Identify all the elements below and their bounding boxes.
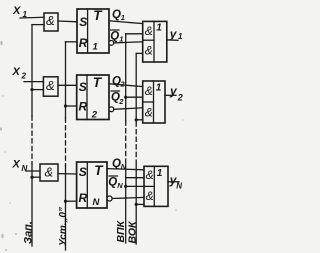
wire bus-vpk lower stub rowN: [126, 185, 144, 187]
svg-text:N: N: [117, 181, 123, 190]
svg-text:N: N: [93, 197, 101, 208]
svg-text:&: &: [46, 13, 55, 28]
and-or block row2: [143, 81, 165, 123]
label T2 pins: [79, 75, 103, 121]
wire and2 output to S2: [58, 84, 77, 86]
bus VPK vertical: [125, 34, 127, 243]
svg-text:&: &: [146, 168, 154, 182]
wire QN: [107, 169, 144, 170]
wire Q2-bar: [114, 108, 143, 110]
svg-text:&: &: [145, 24, 153, 38]
wire and1 output to S1: [58, 20, 77, 23]
inverter bubble QN: [107, 196, 112, 201]
svg-text:S: S: [79, 15, 87, 29]
label Q2: [112, 76, 126, 89]
junction bus-ust rowN: [64, 200, 67, 203]
svg-text:1: 1: [119, 34, 123, 43]
labels inside and-or block row2: [145, 83, 162, 120]
label y1: [169, 27, 183, 41]
svg-text:R: R: [79, 36, 88, 50]
wire Q1-bar: [114, 42, 143, 43]
svg-text:&: &: [146, 189, 154, 203]
svg-text:Q: Q: [110, 31, 119, 43]
label QN: [112, 158, 127, 171]
label X1: [12, 5, 28, 19]
labels inside and-or block rowN: [146, 168, 163, 203]
svg-text:T: T: [93, 8, 103, 23]
svg-text:&: &: [46, 78, 55, 93]
and-gate rowN: [40, 164, 58, 181]
label Zap: [23, 221, 35, 244]
label T1 pins: [79, 8, 104, 53]
inverter bubble Q1: [109, 41, 114, 46]
wire bus-vok stub row2: [136, 119, 143, 121]
wire Q2: [109, 84, 143, 87]
svg-text:&: &: [145, 43, 153, 57]
label Q2-bar: [111, 91, 124, 106]
wire X2 input: [24, 81, 43, 83]
inverter bubble Q2: [109, 107, 114, 112]
junction bus-vpk rowN: [124, 185, 127, 188]
label Ust0: [58, 207, 69, 246]
label QN-bar: [108, 176, 123, 190]
svg-text:2: 2: [21, 72, 27, 81]
wire yN output: [168, 181, 179, 183]
svg-text:Q: Q: [112, 9, 121, 21]
junction bus-vok row2: [135, 118, 138, 121]
wire bus-zap stub row1: [32, 24, 44, 26]
svg-text:&: &: [145, 106, 153, 120]
wire andN output to SN: [58, 173, 77, 175]
svg-text:T: T: [93, 75, 103, 90]
trigger TN: [77, 162, 107, 208]
wire Q1: [109, 21, 143, 24]
and-gate row1: [44, 13, 58, 31]
label Q1-bar: [110, 30, 123, 43]
wire y2 output: [165, 94, 176, 96]
labels inside and-or block row1: [145, 23, 163, 58]
svg-text:R: R: [79, 191, 88, 205]
svg-text:y: y: [169, 27, 178, 41]
svg-text:&: &: [145, 84, 153, 98]
wire bus-zap stub row2: [32, 89, 43, 91]
label X2: [12, 66, 27, 81]
bus VOK vertical: [135, 53, 137, 244]
scan smudges: [0, 41, 184, 251]
label VOK: [126, 220, 138, 243]
junction bus-zap row2: [30, 88, 33, 91]
junction bus-vok rowN: [135, 203, 138, 206]
svg-text:Q: Q: [108, 177, 117, 189]
junction bus-ust row2: [64, 104, 67, 107]
svg-text:S: S: [79, 80, 87, 94]
wire bus-vok stub row1: [136, 52, 143, 54]
svg-text:N: N: [176, 181, 182, 190]
svg-text:X: X: [12, 159, 21, 171]
wire RN stub: [66, 200, 77, 202]
svg-text:1: 1: [157, 168, 163, 179]
label y2: [169, 84, 183, 102]
and-gate row2: [43, 77, 58, 96]
svg-text:T: T: [94, 163, 104, 178]
svg-text:Уст.„0”: Уст.„0”: [58, 207, 69, 246]
svg-text:2: 2: [177, 92, 183, 102]
svg-text:R: R: [79, 100, 88, 114]
label yN: [169, 173, 183, 190]
wire bus-vok stub rowN: [136, 203, 144, 205]
svg-text:Зап.: Зап.: [23, 221, 35, 244]
svg-text:X: X: [12, 5, 21, 17]
svg-text:S: S: [79, 165, 87, 179]
svg-text:ВПК: ВПК: [115, 219, 127, 242]
wire bus-zap stub rowN: [32, 176, 40, 178]
wire XN input: [26, 170, 40, 172]
svg-text:ВОК: ВОК: [126, 220, 138, 243]
and-or block row1: [143, 21, 167, 62]
label TN pins: [79, 163, 105, 208]
junction bus-vpk row2: [124, 96, 127, 99]
bus Ust0 vertical: [66, 42, 78, 250]
wire bus-vpk stub row2: [126, 96, 143, 98]
wire bus-vpk stub row1: [126, 33, 143, 35]
trigger T2: [77, 75, 109, 120]
svg-text:1: 1: [121, 13, 125, 22]
wire R2 stub: [66, 105, 77, 107]
svg-text:1: 1: [178, 32, 183, 41]
svg-text:2: 2: [118, 97, 124, 106]
svg-text:1: 1: [93, 42, 98, 53]
bus Zap vertical: [31, 25, 33, 246]
trigger T1: [77, 9, 109, 53]
wire X1 input: [20, 16, 44, 19]
and-or block rowN: [144, 166, 168, 206]
svg-text:Q: Q: [112, 158, 121, 170]
svg-text:1: 1: [156, 83, 162, 94]
wire bus-vpk upper stub rowN: [126, 177, 144, 179]
label XN: [12, 159, 28, 174]
svg-text:&: &: [45, 165, 54, 180]
svg-text:2: 2: [120, 80, 126, 89]
svg-text:2: 2: [91, 110, 98, 121]
svg-text:X: X: [12, 66, 21, 78]
svg-text:y: y: [169, 84, 178, 98]
wire QN-bar: [112, 197, 144, 198]
wire y1 output: [167, 39, 178, 41]
label Q1: [112, 9, 125, 22]
junction bus-zap rowN: [30, 176, 33, 179]
svg-text:1: 1: [156, 23, 162, 34]
label VPK: [115, 219, 127, 242]
